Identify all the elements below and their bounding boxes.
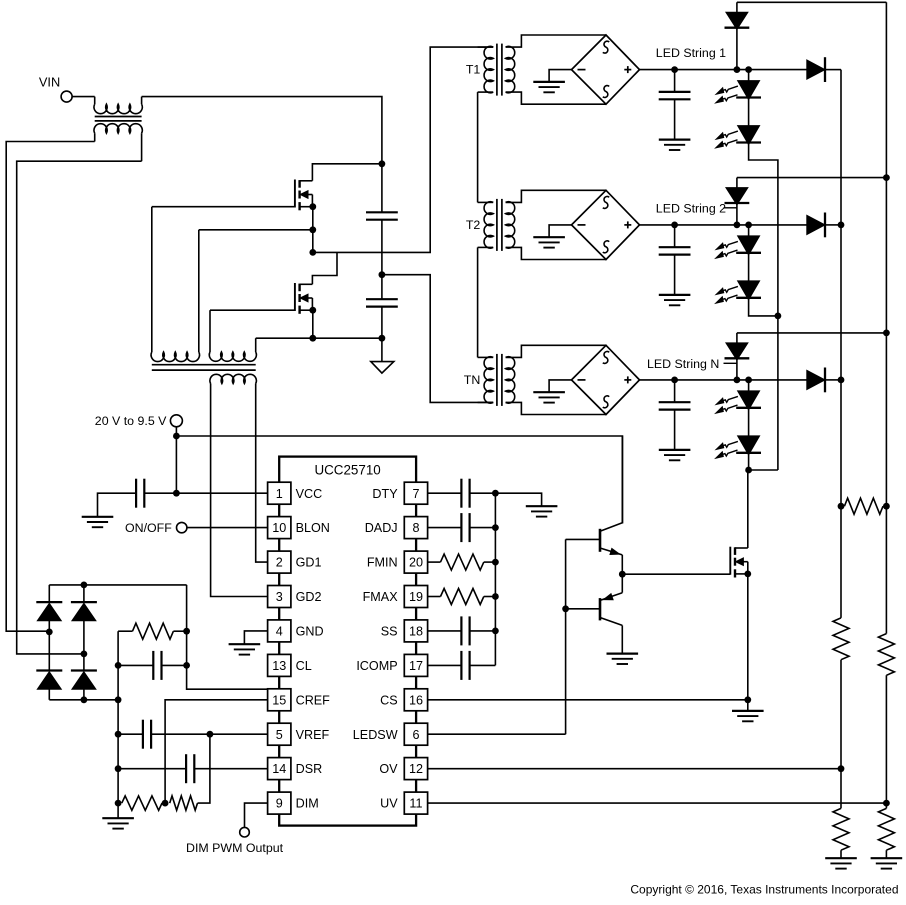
pin 6 number: [412, 728, 419, 742]
pin label ICOMP: [356, 659, 397, 673]
node string 1 cap tap: [671, 66, 678, 73]
label TN: [464, 373, 481, 387]
transformer T4 gate winding W1: [151, 207, 199, 362]
svg-text:8: 8: [412, 521, 419, 535]
capacitor C9 sense filter: [153, 651, 161, 680]
svg-text:4: 4: [276, 625, 283, 639]
terminal ON/OFF input: [177, 522, 187, 532]
wire bridge bottom rail: [49, 699, 118, 701]
node bias rail tap: [173, 433, 180, 440]
bridge BR1 plus sign: [624, 66, 631, 73]
wire C2 to bottom node: [381, 307, 383, 339]
wire T2 secondary bottom to bridge: [506, 247, 606, 259]
svg-text:LEDSW: LEDSW: [353, 728, 398, 742]
node bus DADJ: [492, 524, 499, 531]
wire UV pin to divider: [428, 802, 887, 804]
pin label VCC: [296, 487, 323, 501]
svg-text:2: 2: [276, 556, 283, 570]
LED string 2 first LED: [716, 225, 761, 258]
pin 20 number: [409, 556, 423, 570]
transformer T1 primary winding: [478, 46, 494, 92]
label LED String N: [647, 357, 719, 371]
pin 4 number: [276, 625, 283, 639]
pin 12 number: [409, 762, 423, 776]
pin 5 VREF box: [268, 723, 291, 745]
wire string 2 bottom: [749, 298, 778, 316]
transistor Q3 NPN driver: [600, 523, 622, 555]
node bottom rail at caps: [379, 335, 386, 342]
node R3 right: [183, 628, 190, 635]
wire R8 to ground: [885, 850, 887, 858]
wire CREF pin net: [165, 700, 268, 803]
ground left column: [102, 818, 134, 828]
label copyright: [630, 882, 898, 896]
wire DADJ to C6: [428, 527, 462, 529]
pin 6 LEDSW box: [404, 723, 427, 745]
capacitor C1 resonant upper: [366, 212, 398, 219]
bridge rectifier BR2 diamond: [572, 190, 640, 259]
LED string 1 first LED: [716, 70, 761, 103]
wire string N bottom: [748, 453, 750, 470]
pin 17 ICOMP box: [404, 654, 427, 676]
pin 18 SS box: [404, 620, 427, 642]
pin 15 CREF box: [268, 689, 291, 711]
wire TN secondary top to bridge: [506, 345, 606, 357]
node M3 source: [744, 571, 751, 578]
bridge rectifier BR3 diamond: [572, 345, 640, 414]
ground OV divider: [825, 858, 857, 868]
svg-text:17: 17: [409, 659, 423, 673]
wire Q2 drain jog to switch node: [312, 252, 337, 284]
wire CS node to ground: [747, 700, 749, 711]
diode D3a string 3 feed diode: [725, 333, 750, 380]
wire VCC to pin 1: [144, 492, 267, 494]
transistor Q1 high-side MOSFET: [295, 180, 313, 211]
node C9 left: [115, 662, 122, 669]
node UV rail tap string 2: [883, 174, 890, 181]
wire label dash string 2: [724, 207, 737, 209]
node UV sense tap: [883, 800, 890, 807]
resistor R4 OV rail middle: [833, 618, 849, 660]
pin label VREF: [296, 728, 330, 742]
node left column VREF: [115, 731, 122, 738]
terminal 20V bias input: [170, 415, 182, 427]
wire string 1 bottom to sense rail: [749, 143, 778, 316]
choke L1 top winding: [94, 97, 142, 114]
ground string 1 filter cap: [659, 140, 691, 150]
ground power-ground triangle: [371, 338, 394, 373]
wire T1 secondary bottom to bridge: [506, 92, 606, 104]
pin 11 number: [409, 797, 422, 811]
capacitor C7 SS: [461, 616, 469, 645]
node OV rail top resistor tap: [838, 503, 845, 510]
pin 16 number: [409, 693, 423, 707]
wire UV rail lower: [885, 675, 887, 808]
pin label GND: [296, 625, 324, 639]
wire TN secondary bottom to bridge: [506, 402, 606, 414]
wire C3 to ground: [98, 493, 137, 517]
node C9 right: [183, 662, 190, 669]
wire Q3 base: [566, 538, 600, 540]
pin 19 FMAX box: [404, 586, 427, 608]
node top rail junction: [379, 160, 386, 167]
svg-text:BLON: BLON: [296, 521, 330, 535]
ground UV divider: [871, 858, 903, 868]
wire Q2 source to bottom node: [312, 310, 314, 338]
ground M3 source: [732, 711, 764, 721]
pin 17 number: [409, 659, 423, 673]
wire switch node to LLC chain top: [313, 47, 493, 252]
diode D8 rectifier: [71, 654, 97, 700]
pin 1 VCC box: [268, 482, 291, 504]
ground VCC decoupling: [82, 517, 114, 527]
diode D7 rectifier: [71, 585, 97, 654]
wire stringN bottom to sense rail end: [749, 469, 778, 471]
svg-text:GD2: GD2: [296, 590, 322, 604]
wire string 1 top feed: [737, 1, 887, 3]
wire 20V rail to Q3 collector: [176, 436, 622, 524]
wire OV pin to divider: [428, 768, 841, 770]
pin label GD1: [296, 556, 322, 570]
ground DTY network: [526, 506, 558, 516]
LED string 2 second LED: [716, 253, 761, 303]
transformer T1 secondary winding: [506, 46, 515, 92]
ground string 3 filter cap: [659, 450, 691, 460]
wire OV rail upper: [840, 70, 842, 618]
capacitor C5 DTY: [461, 479, 469, 508]
ground BR1 minus: [533, 82, 565, 92]
node string 2 cap tap: [671, 222, 678, 229]
wire OV rail lower: [840, 660, 842, 809]
svg-text:OV: OV: [379, 762, 398, 776]
pin 13 CL box: [268, 654, 291, 676]
node OV sense tap: [838, 765, 845, 772]
label UCC25710: [314, 463, 380, 478]
pin 16 CS box: [404, 689, 427, 711]
pin 3 GD2 box: [268, 586, 291, 608]
pin 14 DSR box: [268, 758, 291, 780]
bridge BR3 AC mark bottom: [603, 396, 609, 408]
pin label UV: [380, 797, 398, 811]
diode D2a string 2 feed diode: [725, 178, 750, 225]
pin 7 DTY box: [404, 482, 427, 504]
wire W1 to Q1 gate: [152, 206, 295, 208]
wire T2 secondary top to bridge: [506, 190, 606, 202]
node driver emitters: [619, 571, 626, 578]
transformer T1 core: [497, 44, 502, 96]
ground IC GND pin: [229, 644, 261, 654]
transformer TN secondary winding: [506, 357, 515, 403]
wire M3 drain to LED bottoms: [747, 470, 749, 548]
node bus FMIN: [492, 559, 499, 566]
transformer T2 secondary winding: [506, 202, 515, 248]
label T1: [466, 63, 481, 77]
resistor R2 dim divider: [170, 796, 198, 810]
node CREF divider tap: [162, 800, 169, 807]
svg-text:DTY: DTY: [372, 487, 398, 501]
op-amp U1 UCC25710 body: [279, 457, 416, 826]
wire C7 to bus: [470, 630, 496, 632]
wire Q3 emitter to node: [621, 555, 623, 574]
diode D1a string 1 feed diode: [725, 2, 750, 69]
pin label DIM: [296, 797, 319, 811]
wire W2 to Q2 gate: [210, 309, 295, 311]
svg-text:5: 5: [276, 728, 283, 742]
transformer T4 core: [152, 365, 256, 370]
capacitor C3 VCC decoupling: [136, 479, 144, 508]
wire FMAX to R10: [428, 596, 441, 598]
transformer T4 drive winding W3: [210, 374, 256, 383]
pin label CL: [296, 659, 312, 673]
wire DIM pin to output terminal: [245, 803, 268, 827]
resistor R8 UV lower divider: [878, 808, 894, 850]
svg-text:T1: T1: [466, 63, 481, 77]
pin 20 FMIN box: [404, 551, 427, 573]
wire C8 to bus: [470, 664, 496, 666]
transformer TN primary winding: [478, 357, 494, 403]
svg-text:T2: T2: [466, 218, 481, 232]
node string 2 feed tap: [734, 222, 741, 229]
wire C6 to bus: [470, 527, 496, 529]
node Q2 source: [309, 307, 316, 314]
svg-text:13: 13: [272, 659, 286, 673]
svg-text:DIM: DIM: [296, 797, 319, 811]
svg-text:20: 20: [409, 556, 423, 570]
pin 14 number: [272, 762, 286, 776]
transistor Q2 low-side MOSFET: [295, 283, 313, 314]
terminal DIM PWM output: [240, 827, 250, 837]
capacitor C4 string 1 filter: [659, 70, 691, 140]
node string 1 feed tap: [734, 66, 741, 73]
transistor Q4 PNP driver: [600, 593, 622, 626]
svg-text:ICOMP: ICOMP: [356, 659, 397, 673]
wire W3 left lead to GD2: [211, 384, 268, 597]
wire bus vertical: [494, 493, 496, 665]
wire R2 to VREF node: [198, 734, 210, 803]
svg-text:SS: SS: [381, 625, 398, 639]
bridge BR3 plus sign: [624, 376, 631, 383]
pin 15 number: [272, 693, 286, 707]
diode D3b string 3 OV diode: [807, 368, 841, 393]
svg-text:18: 18: [409, 625, 423, 639]
resistor R10 FMAX: [441, 589, 484, 605]
svg-text:CL: CL: [296, 659, 312, 673]
wire R6 to ground: [840, 850, 842, 858]
wire T2 primary bottom to TN primary top: [477, 247, 479, 357]
pin label DTY: [372, 487, 398, 501]
wire Q1 drain to top node: [312, 164, 382, 181]
wire R9 to bus: [484, 561, 496, 563]
svg-text:FMAX: FMAX: [363, 590, 399, 604]
transformer T2 core: [497, 199, 502, 251]
pin 8 DADJ box: [404, 517, 427, 539]
node left column DIM row: [115, 800, 122, 807]
label LED String 1: [656, 46, 726, 60]
svg-text:1: 1: [276, 487, 283, 501]
node VCC junction: [173, 490, 180, 497]
resistor R9 FMIN: [441, 554, 484, 570]
label LED String 2: [656, 201, 726, 215]
node OV rail tap string 2: [838, 222, 845, 229]
pin label FMAX: [363, 590, 399, 604]
pin 2 GD1 box: [268, 551, 291, 573]
capacitor C2 resonant lower: [366, 299, 398, 306]
wire BR3 minus to ground: [549, 380, 571, 392]
wire left column: [117, 631, 119, 818]
wire bottom rail: [256, 337, 382, 339]
node string 2 bottom junction: [775, 313, 782, 320]
wire LEDSW to base column: [428, 733, 566, 735]
node VREF junction: [207, 731, 214, 738]
pin 12 OV box: [404, 758, 427, 780]
pin label OV: [379, 762, 398, 776]
wire bias to VCC: [175, 436, 177, 493]
diode D5 rectifier: [36, 585, 62, 632]
node string 3 LED tap: [745, 377, 752, 384]
transformer T2 primary winding: [478, 202, 494, 248]
node string N bottom junction: [745, 467, 752, 474]
wire C1 to cap mid node: [381, 220, 383, 275]
wire C9 right lead: [162, 664, 187, 666]
wire sense rail string2 to stringN: [777, 316, 779, 470]
wire sense column to CREF corner: [187, 585, 268, 689]
svg-text:9: 9: [276, 797, 283, 811]
svg-text:DADJ: DADJ: [365, 521, 398, 535]
wire R3 left lead: [118, 630, 132, 632]
wire C11 to DSR pin: [194, 768, 267, 770]
ground BR3 minus: [533, 392, 565, 402]
svg-text:VIN: VIN: [39, 75, 60, 90]
node rail B tap: [81, 651, 88, 658]
svg-text:DSR: DSR: [296, 762, 323, 776]
svg-text:11: 11: [409, 797, 422, 811]
pin 10 BLON box: [268, 517, 291, 539]
svg-text:19: 19: [409, 590, 423, 604]
pin 11 UV box: [404, 792, 427, 814]
wire Q3 collector: [621, 436, 623, 523]
wire choke upper return to left rail A: [6, 142, 95, 632]
bridge BR2 minus sign: [578, 224, 586, 226]
node Q1 source: [309, 203, 316, 210]
node left column DSR: [115, 765, 122, 772]
diode D2b string 2 OV diode: [807, 213, 841, 238]
pin 8 number: [412, 521, 419, 535]
wire Q4 emitter to node: [621, 574, 623, 593]
node bridge bottom to left column: [115, 696, 122, 703]
svg-text:CS: CS: [380, 693, 398, 707]
ground string 2 filter cap: [659, 295, 691, 305]
wire R3 right lead: [173, 630, 186, 632]
diode D1b string 1 OV diode: [807, 57, 841, 82]
pin 5 number: [276, 728, 283, 742]
svg-text:ON/OFF: ON/OFF: [125, 521, 172, 535]
wire C9 left lead: [118, 664, 153, 666]
pin label GD2: [296, 590, 322, 604]
wire T1 primary bottom to T2 primary top: [477, 92, 479, 202]
pin 1 number: [276, 487, 283, 501]
wire emitters to M3 gate: [622, 573, 730, 575]
bridge BR1 minus sign: [578, 69, 586, 71]
wire ON/OFF to BLON pin 10: [187, 527, 268, 529]
pin 7 number: [412, 487, 419, 501]
wire W1 to Q1 source: [199, 229, 313, 231]
wire SS to C7: [428, 630, 462, 632]
LED string 1 second LED: [716, 98, 761, 148]
node base column junction: [562, 605, 569, 612]
svg-text:UV: UV: [380, 797, 398, 811]
wire UV rail upper: [885, 2, 887, 633]
node resonant cap midpoint: [379, 271, 386, 278]
svg-text:CREF: CREF: [296, 693, 331, 707]
svg-text:12: 12: [409, 762, 423, 776]
capacitor C10 VREF: [143, 720, 151, 749]
node UV rail top resistor tap: [883, 503, 890, 510]
resistor R3 sense filter: [133, 623, 174, 639]
diode D6 rectifier: [36, 632, 62, 700]
wire FMIN to R9: [428, 561, 441, 563]
wire Q4 collector to ground: [621, 625, 623, 653]
wire DTY to C5: [428, 492, 462, 494]
label DIM PWM Output: [186, 841, 284, 855]
label 20 V to 9.5 V: [95, 414, 167, 428]
resistor R5 OV-UV link: [844, 498, 883, 514]
wire Q1 source chain: [312, 207, 314, 253]
svg-text:6: 6: [412, 728, 419, 742]
svg-text:14: 14: [272, 762, 286, 776]
bridge BR3 minus sign: [578, 379, 586, 381]
pin label DADJ: [365, 521, 398, 535]
svg-text:16: 16: [409, 693, 423, 707]
svg-text:LED String 1: LED String 1: [656, 46, 726, 60]
svg-text:DIM PWM Output: DIM PWM Output: [186, 841, 284, 855]
svg-text:LED String N: LED String N: [647, 357, 719, 371]
wire choke to half-bridge top: [142, 97, 382, 164]
pin label BLON: [296, 521, 330, 535]
node bus SS: [492, 628, 499, 635]
transformer T4 gate winding W2: [209, 310, 256, 361]
svg-text:UCC25710: UCC25710: [314, 463, 380, 478]
ground BR2 minus: [533, 237, 565, 247]
pin 4 GND box: [268, 620, 291, 642]
svg-text:VREF: VREF: [296, 728, 330, 742]
node Q1 source winding tap: [309, 226, 316, 233]
wire cap midpoint to LLC chain bottom: [382, 275, 493, 403]
node bridge bottom at column 2: [81, 696, 88, 703]
wire bias terminal stem: [175, 427, 177, 436]
pin 10 number: [272, 521, 286, 535]
pin label SS: [381, 625, 398, 639]
capacitor C11 DSR: [186, 754, 194, 783]
svg-text:20 V to 9.5 V: 20 V to 9.5 V: [95, 414, 167, 428]
wire bridge top rail: [49, 584, 186, 586]
resistor R7 UV rail middle: [878, 634, 894, 676]
node string 2 LED tap: [745, 222, 752, 229]
node bottom rail at Q2: [309, 335, 316, 342]
capacitor C8 ICOMP: [461, 651, 469, 680]
node bus top: [492, 490, 499, 497]
wire DSR to C11: [118, 768, 186, 770]
wire C5 to bus: [470, 492, 496, 494]
node bus FMAX: [492, 593, 499, 600]
label ON/OFF: [125, 521, 172, 535]
wire W3 right lead to GD1: [256, 384, 268, 563]
node bridge top at column 2: [81, 582, 88, 589]
node OV rail tap string 3: [838, 377, 845, 384]
svg-text:GND: GND: [296, 625, 324, 639]
wire CS pin to sense node: [428, 699, 748, 701]
wire base column: [565, 539, 567, 734]
label VIN: [39, 75, 60, 90]
